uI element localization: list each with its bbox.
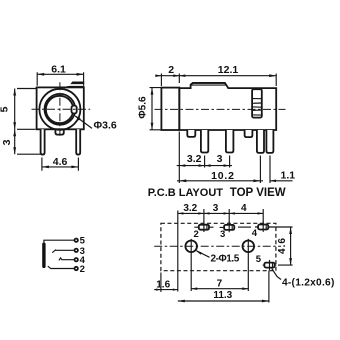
svg-text:2: 2 bbox=[80, 264, 85, 275]
svg-text:Φ3.6: Φ3.6 bbox=[94, 120, 117, 132]
svg-text:11.3: 11.3 bbox=[213, 290, 232, 301]
svg-text:4: 4 bbox=[252, 228, 258, 239]
svg-text:10.2: 10.2 bbox=[211, 170, 235, 182]
svg-text:2-Φ1.5: 2-Φ1.5 bbox=[211, 253, 240, 264]
svg-text:3: 3 bbox=[220, 229, 225, 240]
svg-text:4: 4 bbox=[241, 203, 247, 214]
svg-text:5: 5 bbox=[0, 106, 11, 112]
svg-text:2: 2 bbox=[168, 64, 174, 76]
svg-text:3.2: 3.2 bbox=[187, 153, 202, 165]
svg-text:2: 2 bbox=[194, 229, 199, 240]
svg-text:3: 3 bbox=[217, 153, 223, 165]
svg-text:6.1: 6.1 bbox=[51, 64, 66, 76]
svg-text:3.2: 3.2 bbox=[183, 203, 197, 214]
svg-text:Φ5.6: Φ5.6 bbox=[138, 96, 149, 119]
svg-text:7: 7 bbox=[217, 278, 223, 289]
svg-text:3: 3 bbox=[213, 203, 219, 214]
svg-text:4-(1.2x0.6): 4-(1.2x0.6) bbox=[282, 277, 335, 288]
svg-text:4.6: 4.6 bbox=[277, 237, 288, 254]
svg-text:3: 3 bbox=[1, 139, 13, 145]
svg-text:5: 5 bbox=[256, 254, 262, 265]
svg-text:12.1: 12.1 bbox=[218, 64, 239, 76]
svg-text:1.6: 1.6 bbox=[156, 280, 170, 291]
svg-text:4.6: 4.6 bbox=[53, 156, 68, 168]
svg-text:1.1: 1.1 bbox=[280, 170, 295, 182]
svg-text:P.C.B LAYOUT: P.C.B LAYOUT bbox=[148, 187, 223, 199]
svg-text:TOP VIEW: TOP VIEW bbox=[230, 187, 286, 199]
